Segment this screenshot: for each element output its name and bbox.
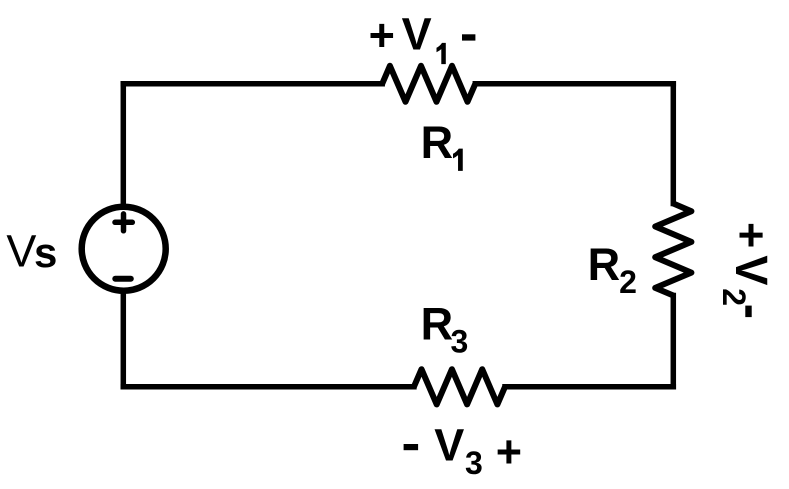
resistor R3 (zigzag on bottom wire) [414,369,505,404]
label - V3 + : minus sign [404,444,419,450]
wire: bottom side, left segment (R3 to bottom-left corner) [123,384,414,390]
wire: top side, left segment (top-left corner to R1) [123,81,382,87]
svg-text:+: + [369,10,395,61]
svg-text:R: R [588,239,621,290]
resistor R2 (zigzag on right wire) [655,204,691,296]
wire: right side, lower segment (R2 down to bottom-right corner) [671,296,677,387]
svg-text:V: V [434,419,464,470]
svg-text:+: + [726,222,777,248]
label R1 : subscript 1 [453,149,463,171]
resistor R1 (zigzag on top wire) [382,66,475,102]
wire: left side, lower segment (bottom-left corner up to source bottom) [121,290,127,387]
voltage source plus terminal mark [115,214,132,231]
wire: right side, upper segment (top-right corner down to R2) [671,84,677,204]
wire: top side, right segment (R1 to top-right corner) [475,81,673,87]
voltage source minus terminal mark [115,276,131,282]
voltage source Vs (circle body) [82,207,166,291]
svg-text:3: 3 [451,324,469,360]
svg-text:V: V [6,226,36,277]
svg-text:2: 2 [716,288,752,306]
label + V1 - : subscript 1 [437,43,446,64]
svg-text:V: V [726,255,777,285]
label + V1 - : minus sign [462,34,475,40]
label + V2 - (rotated 90deg, right of R2) : plus, V, subscript 2 [716,222,777,306]
svg-text:R: R [421,117,454,168]
svg-text:R: R [421,299,454,350]
svg-text:V: V [402,9,432,60]
wire: left side, upper segment (source top up to top-left corner) [121,84,127,208]
svg-text:2: 2 [619,264,637,300]
svg-text:+: + [496,426,522,477]
svg-text:3: 3 [465,445,483,481]
wire: bottom side, right segment (bottom-right corner to R3) [505,384,673,390]
svg-text:s: s [34,229,57,276]
label + V2 - : minus sign (vertical bar below rotated text) [745,306,751,318]
